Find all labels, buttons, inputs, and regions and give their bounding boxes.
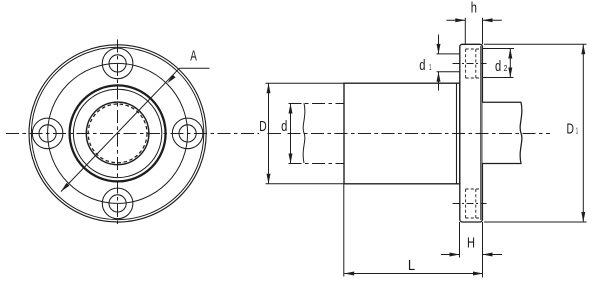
svg-text:d: d [495, 58, 501, 75]
svg-text:d: d [419, 57, 425, 74]
svg-text:A: A [190, 48, 197, 65]
svg-text:1: 1 [576, 125, 578, 135]
svg-text:h: h [471, 0, 477, 17]
svg-text:2: 2 [504, 63, 508, 73]
svg-text:L: L [408, 257, 415, 274]
svg-text:1: 1 [429, 62, 431, 72]
svg-text:D: D [259, 118, 267, 135]
svg-text:D: D [567, 120, 575, 137]
svg-text:d: d [281, 118, 287, 135]
svg-text:H: H [467, 235, 475, 252]
